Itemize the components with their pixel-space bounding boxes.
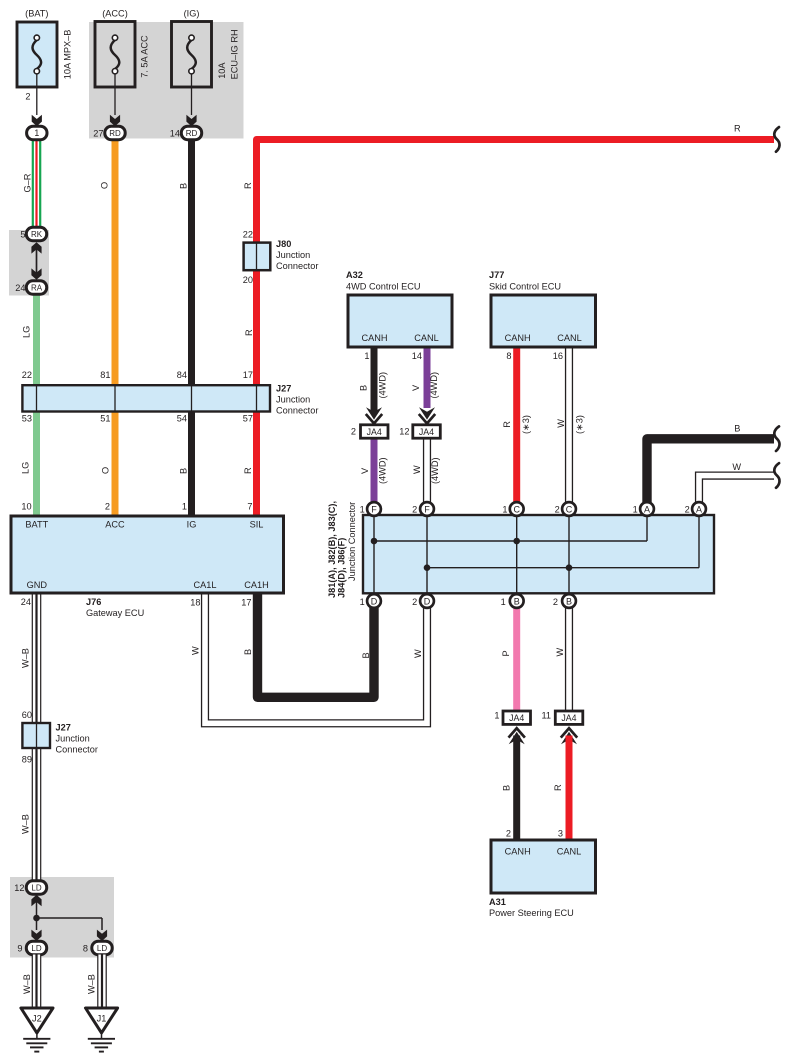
svg-text:W: W	[412, 465, 422, 474]
connector LD (12)	[26, 881, 46, 894]
svg-text:10A MPX–B: 10A MPX–B	[62, 30, 72, 80]
junction vertical F1-D1	[373, 509, 375, 601]
svg-text:24: 24	[15, 283, 25, 293]
svg-text:2: 2	[351, 427, 356, 437]
svg-text:14: 14	[412, 351, 422, 361]
node B2	[562, 594, 576, 608]
svg-text:8: 8	[506, 351, 511, 361]
svg-text:(4WD): (4WD)	[430, 457, 440, 484]
inter-connector arrow RK-RA	[36, 244, 38, 278]
svg-text:12: 12	[14, 883, 24, 893]
wire W from junction B2 to JA4	[565, 608, 573, 712]
svg-text:(4WD): (4WD)	[378, 372, 388, 399]
svg-text:Junction: Junction	[276, 250, 310, 260]
svg-text:J80: J80	[276, 239, 291, 249]
svg-text:O: O	[100, 182, 110, 189]
svg-text:RD: RD	[109, 129, 121, 138]
svg-text:CA1H: CA1H	[244, 580, 269, 590]
svg-text:LG: LG	[22, 326, 32, 338]
svg-text:10A: 10A	[217, 62, 227, 79]
svg-text:1: 1	[34, 128, 39, 138]
wire B from IG fuse to Gateway ECU IG	[188, 139, 195, 516]
svg-text:O: O	[101, 467, 111, 474]
ground J1 symbol	[101, 1033, 103, 1038]
ground branch wire	[36, 902, 38, 918]
svg-text:LG: LG	[21, 462, 31, 474]
wire W-B to ground J1	[97, 955, 107, 1009]
ground J2 symbol	[36, 1033, 38, 1038]
svg-text:4WD Control ECU: 4WD Control ECU	[346, 282, 421, 292]
arrow out of JA4 (A31 CANH)	[509, 728, 525, 737]
svg-text:9: 9	[17, 944, 22, 954]
node C2	[562, 502, 576, 516]
svg-text:LD: LD	[31, 884, 41, 893]
svg-text:W–B: W–B	[22, 974, 32, 994]
svg-text:22: 22	[243, 230, 253, 240]
wire R from JA4 to A31 CANL pin 3	[566, 736, 573, 841]
wire P from junction B1 to JA4	[513, 608, 520, 712]
ECU J76 Gateway ECU box	[11, 516, 284, 593]
svg-text:CANH: CANH	[361, 333, 387, 343]
svg-text:ACC: ACC	[105, 520, 125, 530]
wire B (thick) from CA1H to junction D1	[258, 593, 375, 697]
wire W from JA4 to junction F2	[423, 439, 431, 504]
junction vertical C2-B2	[568, 509, 570, 601]
svg-text:16: 16	[553, 351, 563, 361]
svg-text:R: R	[243, 182, 253, 189]
node F1	[367, 502, 381, 516]
svg-text:B: B	[243, 649, 253, 655]
fuse element (ACC) 7.5A ACC	[111, 40, 120, 69]
svg-text:2: 2	[25, 92, 30, 102]
node A2	[692, 502, 706, 516]
svg-text:7: 7	[247, 502, 252, 512]
svg-text:17: 17	[243, 370, 253, 380]
svg-text:20: 20	[243, 275, 253, 285]
node C1	[510, 502, 524, 516]
svg-text:Junction: Junction	[56, 734, 90, 744]
svg-text:2: 2	[412, 597, 417, 607]
svg-text:SIL: SIL	[250, 520, 264, 530]
wire from IG fuse to node RD	[191, 74, 193, 115]
svg-text:1: 1	[633, 505, 638, 515]
junction connector J27 bar	[22, 385, 270, 411]
ECU A31 box	[491, 840, 596, 893]
junction connector J80	[244, 243, 271, 271]
svg-text:(BAT): (BAT)	[25, 9, 48, 19]
svg-text:W–B: W–B	[21, 648, 31, 668]
junction connector JA4 (from A32 CANH)	[361, 425, 389, 438]
connector RA	[26, 281, 46, 294]
svg-text:Connector: Connector	[56, 745, 98, 755]
arrow into JA4 (A32 CANH)	[366, 407, 382, 419]
wire B (thick) from junction A1 to right continuation	[647, 439, 774, 503]
svg-text:W–B: W–B	[87, 974, 97, 994]
svg-text:3: 3	[558, 829, 563, 839]
junction dot (ground branch)	[33, 915, 40, 922]
svg-text:F: F	[371, 504, 377, 514]
svg-text:81: 81	[100, 370, 110, 380]
svg-text:A31: A31	[489, 897, 506, 907]
svg-text:JA4: JA4	[509, 713, 524, 723]
junction dot F1/CANH	[371, 538, 378, 545]
svg-text:C: C	[566, 504, 573, 514]
node D2	[420, 594, 434, 608]
svg-text:CANL: CANL	[557, 847, 582, 857]
ECU J77 box	[491, 295, 596, 347]
svg-text:R: R	[243, 467, 253, 474]
svg-text:1: 1	[494, 711, 499, 721]
arrow into LD 9	[31, 930, 41, 941]
svg-text:54: 54	[177, 414, 187, 424]
connector RK	[26, 227, 46, 240]
svg-text:7. 5A ACC: 7. 5A ACC	[140, 35, 150, 78]
svg-text:11: 11	[541, 711, 551, 721]
junction vertical A2	[698, 509, 700, 568]
svg-text:R: R	[244, 329, 254, 336]
fuse box (BAT)	[17, 22, 57, 87]
svg-text:1: 1	[182, 502, 187, 512]
node F2	[420, 502, 434, 516]
svg-text:2: 2	[555, 505, 560, 515]
svg-text:Connector: Connector	[276, 406, 318, 416]
svg-text:P: P	[501, 650, 511, 656]
junction connector J27 (lower)	[22, 723, 50, 748]
svg-text:Junction Connector: Junction Connector	[347, 502, 357, 581]
svg-text:V: V	[411, 384, 421, 391]
svg-text:18: 18	[190, 598, 200, 608]
svg-text:RK: RK	[31, 230, 43, 239]
svg-text:8: 8	[83, 944, 88, 954]
svg-text:W–B: W–B	[21, 814, 31, 834]
svg-text:W: W	[555, 648, 565, 657]
svg-text:B: B	[501, 785, 511, 791]
wire R from top-right continuation down to Gateway ECU SIL	[257, 140, 775, 517]
svg-text:W: W	[556, 419, 566, 428]
svg-text:W: W	[732, 462, 741, 472]
svg-text:JA4: JA4	[419, 427, 434, 437]
arrow into node RD (ACC)	[110, 115, 120, 126]
svg-text:CANL: CANL	[414, 333, 439, 343]
svg-text:57: 57	[243, 414, 253, 424]
svg-text:CA1L: CA1L	[194, 580, 217, 590]
svg-text:Gateway ECU: Gateway ECU	[86, 608, 144, 618]
svg-text:B: B	[359, 385, 369, 391]
fuse box (IG)	[172, 22, 212, 88]
svg-text:(4WD): (4WD)	[429, 372, 439, 399]
svg-text:(IG): (IG)	[184, 9, 200, 19]
gray shading behind LD ground connectors	[10, 877, 114, 958]
svg-text:R: R	[502, 421, 512, 428]
wire O from ACC fuse to Gateway ECU ACC	[112, 139, 119, 516]
svg-text:2: 2	[412, 505, 417, 515]
svg-text:LD: LD	[97, 944, 107, 953]
svg-text:89: 89	[22, 755, 32, 765]
svg-text:17: 17	[241, 598, 251, 608]
svg-text:GND: GND	[27, 580, 48, 590]
svg-text:1: 1	[360, 505, 365, 515]
svg-text:ECU–IG RH: ECU–IG RH	[229, 29, 239, 79]
svg-text:B: B	[514, 596, 520, 606]
ground J2 triangle	[21, 1008, 53, 1033]
gray shading behind ACC/IG fuse block	[89, 22, 244, 139]
svg-text:J2: J2	[32, 1014, 42, 1024]
arrow into LD 8	[97, 930, 107, 941]
svg-text:1: 1	[364, 351, 369, 361]
wire W-B from Gateway ECU GND down to 12 LD	[32, 593, 42, 882]
svg-text:R: R	[734, 124, 741, 134]
svg-text:JA4: JA4	[367, 427, 382, 437]
arrow into JA4 (A32 CANL)	[419, 407, 435, 419]
junction vertical F2-D2	[426, 509, 428, 601]
fuse element (BAT) 10A MPX-B	[32, 40, 41, 69]
junction connector J81/J82/J83/J84/J86 bar	[363, 515, 714, 593]
svg-text:27: 27	[93, 129, 103, 139]
junction vertical A1	[646, 509, 648, 541]
node D1	[367, 594, 381, 608]
svg-text:G–R: G–R	[22, 173, 32, 192]
wire LG from RA to Gateway ECU BATT	[33, 294, 40, 517]
svg-text:53: 53	[22, 414, 32, 424]
wire V from A32 CANL pin 14 to JA4	[424, 347, 431, 408]
bus line CANH inside junction	[374, 540, 647, 542]
junction connector JA4 (to A31 CANH)	[503, 711, 531, 724]
svg-text:BATT: BATT	[25, 520, 48, 530]
fuse box (ACC)	[95, 22, 135, 88]
wire from BAT fuse to node 1	[36, 74, 38, 115]
svg-text:A: A	[696, 504, 702, 514]
wire B from JA4 to A31 CANH pin 2	[513, 736, 520, 841]
svg-text:C: C	[513, 504, 520, 514]
svg-text:5: 5	[20, 230, 25, 240]
wire W-B to ground J2	[32, 955, 42, 1009]
connector LD (8)	[92, 941, 112, 954]
svg-text:B: B	[566, 596, 572, 606]
arrow into node RD (IG)	[186, 115, 196, 126]
ground J1 triangle	[86, 1008, 118, 1033]
svg-text:Power Steering ECU: Power Steering ECU	[489, 908, 574, 918]
svg-text:W: W	[190, 646, 200, 655]
svg-text:J27: J27	[276, 384, 291, 394]
svg-text:JA4: JA4	[561, 713, 576, 723]
wire B from A32 CANH pin 1 to JA4	[371, 347, 378, 412]
arrow out of JA4 (A31 CANL)	[561, 728, 577, 737]
connector LD (9)	[26, 941, 46, 954]
svg-text:84: 84	[177, 370, 187, 380]
svg-text:W: W	[413, 649, 423, 658]
svg-text:51: 51	[100, 414, 110, 424]
svg-text:Connector: Connector	[276, 261, 318, 271]
junction vertical C1-B1	[516, 509, 518, 601]
svg-text:R: R	[553, 784, 563, 791]
svg-text:J81(A), J82(B), J83(C),: J81(A), J82(B), J83(C),	[327, 501, 337, 598]
svg-text:LD: LD	[31, 944, 41, 953]
svg-text:24: 24	[21, 597, 31, 607]
svg-text:CANH: CANH	[505, 847, 531, 857]
junction dot F2/CANL	[424, 564, 431, 571]
svg-text:14: 14	[170, 129, 180, 139]
node RD (IG)	[181, 126, 201, 139]
svg-text:2: 2	[553, 597, 558, 607]
svg-text:F: F	[424, 504, 430, 514]
svg-text:B: B	[179, 183, 189, 189]
continuation connector (R wire)	[774, 127, 779, 152]
svg-text:RD: RD	[186, 129, 198, 138]
wire W from CA1L to junction D2	[205, 593, 427, 723]
svg-text:B: B	[179, 468, 189, 474]
wire from ACC fuse to node RD	[114, 74, 116, 115]
svg-text:2: 2	[105, 502, 110, 512]
svg-text:(ACC): (ACC)	[102, 9, 128, 19]
svg-text:2: 2	[685, 505, 690, 515]
svg-text:B: B	[361, 652, 371, 658]
wire R from J77 CANH pin 8 to junction C1	[513, 347, 520, 503]
wire V from JA4 to junction F1	[371, 439, 378, 504]
junction dot C1/CANH	[513, 538, 520, 545]
svg-text:(4WD): (4WD)	[378, 457, 388, 484]
continuation connector (B bus)	[774, 426, 779, 451]
junction connector JA4 (to A31 CANL)	[555, 711, 583, 724]
svg-text:IG: IG	[187, 520, 197, 530]
wire W from junction A2 to right continuation	[699, 476, 774, 503]
svg-text:10: 10	[21, 502, 31, 512]
svg-text:J27: J27	[56, 723, 71, 733]
svg-text:60: 60	[22, 710, 32, 720]
gray shading behind RK/RA connectors	[9, 230, 49, 296]
svg-text:CANH: CANH	[505, 333, 531, 343]
ECU A32 box	[348, 295, 452, 347]
svg-text:J84(D), J86(F): J84(D), J86(F)	[337, 538, 347, 598]
junction dot C2/CANL	[566, 564, 573, 571]
svg-text:1: 1	[360, 597, 365, 607]
svg-text:RA: RA	[31, 284, 43, 293]
svg-text:(∗3): (∗3)	[521, 415, 531, 434]
svg-text:Junction: Junction	[276, 395, 310, 405]
bus line CANL inside junction	[427, 567, 699, 569]
svg-text:D: D	[371, 596, 378, 606]
svg-text:2: 2	[506, 829, 511, 839]
node A1	[640, 502, 654, 516]
continuation connector (W bus)	[774, 463, 779, 488]
junction connector JA4 (from A32 CANL)	[413, 425, 441, 438]
arrow into node 1	[32, 115, 42, 126]
wire G-R (green with red stripe) from node 1 to RK	[32, 139, 34, 228]
svg-text:CANL: CANL	[557, 333, 582, 343]
svg-text:D: D	[424, 596, 431, 606]
svg-text:1: 1	[502, 505, 507, 515]
node 1	[27, 126, 47, 139]
svg-text:B: B	[734, 424, 740, 434]
svg-text:(∗3): (∗3)	[575, 415, 585, 434]
svg-text:22: 22	[22, 370, 32, 380]
node RD (ACC)	[105, 126, 125, 139]
svg-text:1: 1	[501, 597, 506, 607]
node B1	[510, 594, 524, 608]
svg-text:12: 12	[399, 427, 409, 437]
wire W from J77 CANL pin 16 to junction C2	[565, 347, 573, 503]
svg-text:J76: J76	[86, 597, 101, 607]
svg-text:A32: A32	[346, 270, 363, 280]
svg-text:V: V	[360, 467, 370, 474]
svg-text:A: A	[644, 504, 650, 514]
fuse element (IG) 10A ECU-IG RH	[187, 40, 196, 69]
svg-text:Skid Control ECU: Skid Control ECU	[489, 282, 561, 292]
arrow up into LD 12	[31, 895, 41, 906]
svg-text:J1: J1	[97, 1014, 107, 1024]
svg-text:J77: J77	[489, 270, 504, 280]
